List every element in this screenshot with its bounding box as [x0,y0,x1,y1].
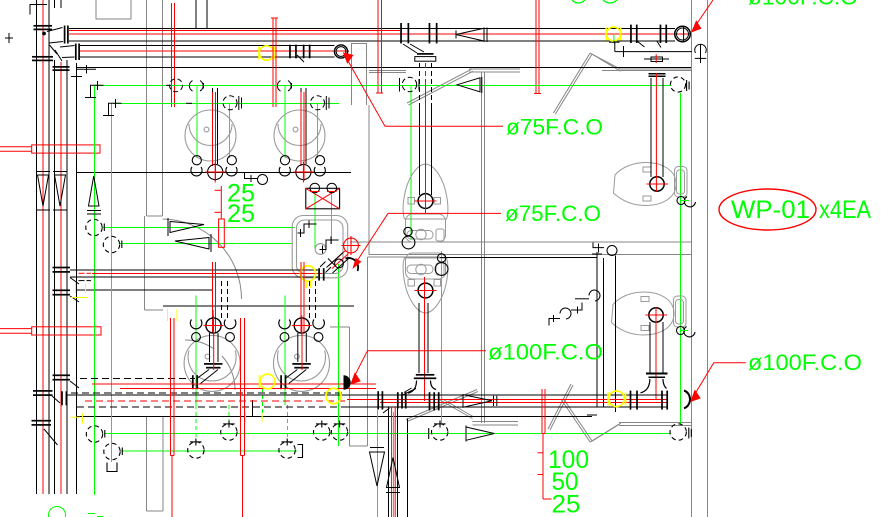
green V bottom x393 [392,412,394,517]
vent fitting wall [695,44,707,63]
door leaf lower mid [548,384,571,429]
sink 1 upper [185,110,236,161]
dashes near sink1 left [166,85,192,103]
lower sink room gray [144,216,146,310]
band black main [66,378,668,407]
sink2 drain red [301,92,304,181]
flow arrow right on green [466,426,494,442]
cleanout symbol mid sinks [245,173,268,185]
flow arrows mid-left down [36,172,67,211]
shelf bar C [620,68,691,70]
corner mark top left [5,5,47,44]
svg-text:ø75F.C.O: ø75F.C.O [505,201,601,226]
door leaf D3 [590,424,619,442]
T4 red cross [646,307,668,399]
svg-text:ø75F.C.O: ø75F.C.O [506,115,603,140]
green sink verticals [196,85,198,158]
break zigzag Z1 [407,69,472,103]
lower room right partition pair [349,327,351,446]
yellow valve circle run A [606,27,620,41]
sink2 drain pipe [301,88,306,164]
svg-text:x4EA: x4EA [819,196,871,224]
step mark room corner 1 [71,65,96,77]
shaft wall left lower [146,417,148,511]
vent stub x196 [196,0,207,28]
lower sink2 drain red [301,333,303,370]
flange P2 top [53,66,70,71]
riser P2 red center [60,62,62,494]
dashed fitting stall green [402,77,416,91]
T1 red cross [415,80,437,214]
yellow dash marks bottom [71,309,263,424]
green H4 y243 [120,242,292,244]
bottom center pipe bundle [388,407,397,517]
run B black pair [80,45,335,57]
valve x229 [221,421,237,441]
toilet T2 [403,253,448,313]
flow arrows on green H3 H4 [168,218,211,252]
run A black pair [69,28,675,41]
step fitting above lower sink2b [571,290,600,313]
T4 outlet circle [649,308,663,322]
red riser x173 [172,3,175,107]
top wall [77,66,692,68]
red riser x275 [271,18,278,107]
band flange x630 [630,391,668,410]
T3 supply circles [677,197,696,207]
black dashes mid [79,280,92,282]
T2 drop pipe [419,303,428,373]
riser P2 black pair [55,60,68,494]
T3 outlet circle [650,177,664,191]
step mark green start 1 [85,81,104,98]
lower sink2 side hooks [279,320,325,342]
yellow circle band mid [326,388,341,403]
flange bars on P2 mid [53,267,80,302]
riser P1 red center [42,0,44,494]
green V x94 [93,85,95,495]
dim bracket 25 [215,186,225,247]
step mark counter 2 [320,237,339,254]
dashed red drop [425,63,427,80]
cleanout circle top right [675,26,691,42]
step fitting above lower sink2 [549,308,571,325]
door leaf D1 [440,400,472,419]
red stub left y149 [0,145,100,153]
green V x111 [111,103,113,462]
run A flange pair x430 [429,23,438,43]
yellow circle mid run [300,266,315,288]
sink1 drain pipe [213,88,218,164]
elbow run A left [43,26,69,44]
sink 2 upper [274,110,325,161]
T3 drop pipe [649,73,666,177]
stall floor edge [440,254,602,258]
yellow marks mid [71,283,88,298]
T3 green link [681,200,689,202]
run B flange pair 2 [303,45,311,59]
green V lower sinks [213,310,215,318]
sink1 trap circles [191,156,237,180]
dashed fitting on green H y85 left [170,79,183,92]
bench bar D1b [472,421,517,423]
svg-text:25: 25 [227,200,255,228]
svg-text:ø100F.C.O: ø100F.C.O [748,350,862,375]
lower sink1 drain tee [192,333,223,389]
dim riser red pair [542,389,545,434]
toilet T1 [403,164,448,242]
red fd circle [342,236,361,255]
T4 drop pipe [646,322,668,378]
shaft wall left upper [146,0,148,216]
T2 outlet circle [418,283,433,298]
mop sink X-box [306,183,340,209]
elbow run B left [50,44,80,62]
black diagonal riser [320,253,349,274]
riser flange mid [318,268,324,280]
top gray box [96,0,131,19]
bottom long wall [77,416,593,418]
left wall [76,63,78,494]
valve x112 [104,443,123,471]
svg-text:ø100F.C.O: ø100F.C.O [488,340,603,365]
band reducer [463,395,497,408]
step mark counter 1 [298,221,317,238]
T1 supply circles [402,227,415,249]
pillar [352,44,367,106]
T4 elbow [641,379,667,393]
lower sink1 vent dashed [222,281,228,318]
P1 band tee [32,390,68,445]
leader 100FCO right [693,363,746,398]
lower sink1 supply circle [204,316,224,336]
green H3 y227 [102,226,295,228]
sink 1 lower [184,335,240,391]
run A flange pair x630 [630,25,644,47]
green marks top cut [572,0,617,3]
toilet T3 [614,163,688,206]
union rect fitting [644,57,669,62]
flange P1 mid [32,56,53,61]
svg-text:ø100F.C.O: ø100F.C.O [748,0,858,10]
triangle up arrow [387,458,400,488]
door arc upper sink room [163,219,242,299]
sink room bottom wall [77,172,352,174]
leader arrow top right [691,0,713,33]
valve x95 [86,426,105,442]
tick marks bottom bundle [370,415,597,493]
valve x287 [279,439,303,459]
run B flange pair 1 [289,45,304,62]
run A tee at x405 [400,23,424,53]
T1 outlet circle [418,194,433,209]
red riser x537 [534,0,541,94]
toilet T4 [612,292,687,335]
flow arrow green x93 up [87,176,101,214]
fitting on H2 sink2 [311,96,325,110]
red dashes mid [79,272,92,274]
dim bracket bottom [538,434,552,500]
WP ellipse [719,189,816,230]
run B red line [80,50,349,52]
black cap C mid [346,258,359,271]
counter rounded [292,216,348,278]
lower sink1 drain red [213,333,215,370]
sink 2 lower [274,335,330,391]
shelf bar A [369,70,406,72]
vent pipe pair right stalls [597,252,616,412]
green stub under yellow valve [613,35,615,44]
leader 75FCO upper [346,57,504,127]
stall partition pair [481,72,483,423]
lower sink1 side hooks [190,320,236,342]
stall mid wall [350,241,691,243]
bench bar D3b [619,422,691,424]
valve x322 [314,421,330,441]
T2 tee into band [414,374,437,379]
green V toilet2 [441,251,443,425]
red diagonal riser [329,251,349,269]
valve x440 [429,421,448,441]
fitting on H2 sink1 [223,96,237,110]
run A flange pair x660 [657,25,668,48]
partition front [368,105,370,255]
valves mid-left column [86,219,105,235]
T1 drop pipe [420,104,432,195]
yellow circle lower left [260,374,275,389]
valve sym above sink2 [277,81,291,92]
cleanout +O right stalls [593,243,617,256]
break zigzag Z2 [553,53,590,113]
green circle bottom left [49,507,66,517]
sink2 trap circles [279,156,325,180]
leader 75FCO mid [358,213,501,259]
sink2 fd red cross [293,162,314,183]
small fitting circle [335,259,344,268]
green main H y85 [95,84,671,86]
bottom stub wall [406,419,408,517]
svg-text:WP-01: WP-01 [731,196,810,224]
valve x340 [331,421,347,441]
T3 red cross [647,73,669,192]
yellow valve circle run B [259,46,274,60]
pipe cap left D [344,375,351,389]
valve x678 top [670,77,689,92]
run B cleanout circle [334,45,347,58]
lower sink room top wall [77,289,213,291]
sink1 drain red [213,92,216,181]
T2 red cross [415,277,437,401]
tick under yellow valve [609,41,620,43]
triangle down arrow [370,452,385,486]
green V bottom x377 [376,410,378,517]
drop cap fitting [415,53,436,61]
green V right x680 [679,93,681,425]
black branch under cluster [615,41,692,57]
lower sink2 drain tee [280,333,311,389]
pipe cap right [684,391,690,409]
P2 band flange [53,374,80,388]
lower sink2 supply red pair [301,262,304,333]
band fitting group x380 [377,388,411,410]
valve sym above sink1 [189,81,203,92]
green H bottom y451 [121,450,297,452]
red riser x380 [376,0,383,93]
P2 top stub [55,0,62,8]
sink1 fd red cross [205,162,226,183]
lower sink2 vent dashed [310,281,316,318]
step mark green start 2 [103,99,122,116]
green V x315 x331 [314,191,316,249]
green dashes bottom [88,514,103,517]
valve x678 [670,424,691,440]
band union x430 [429,392,440,410]
sink header red lines [92,384,376,389]
T4 supply circles [677,327,696,337]
lower sink1 supply red pair [213,262,216,333]
dashed drop below cap [420,63,432,104]
green H main bottom y433.7 [104,433,670,435]
green V toilet1 [410,85,412,240]
leader 100FCO left [353,351,487,380]
T2 tee elbows [408,381,436,394]
T2 supply circles [435,254,448,276]
shelf bar B [469,68,520,70]
door arc lower sink room [185,340,235,390]
T4 green link [681,330,689,332]
red riser bottom left2 [241,318,245,517]
wall right pair [690,0,692,517]
green V x339 [338,264,340,446]
red stub left y331 [0,327,101,335]
yellow circle band right [608,391,626,407]
green H2 y103 [113,102,339,104]
valve x196 [188,439,204,459]
lower sink2 supply circle [292,316,312,336]
riser P1 black pair [37,0,50,494]
door leaf D2 [562,400,591,442]
red stub at union [655,54,657,63]
run A red lines [69,31,691,34]
flange P1 top [34,25,53,30]
run A reducer [456,28,487,43]
band red main [85,400,667,403]
svg-text:25: 25 [552,491,581,517]
door leaf stall upper [406,390,477,420]
flow arrow on green H y85 [457,77,482,93]
red riser bottom left1 [170,318,174,517]
